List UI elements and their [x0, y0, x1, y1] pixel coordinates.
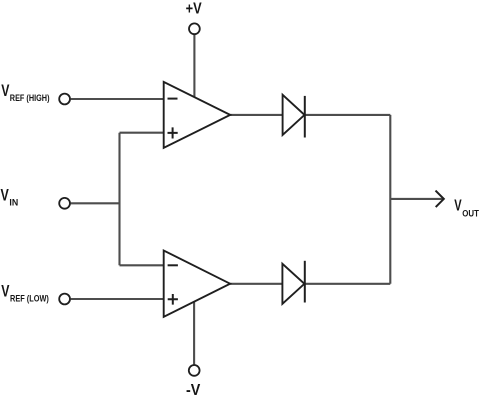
svg-text:V: V	[454, 198, 462, 215]
svg-text:+V: +V	[186, 1, 202, 18]
svg-text:REF (LOW): REF (LOW)	[10, 293, 49, 304]
svg-text:V: V	[1, 82, 9, 100]
svg-text:REF (HIGH): REF (HIGH)	[10, 93, 50, 104]
svg-text:IN: IN	[9, 198, 18, 208]
svg-text:V: V	[1, 186, 9, 204]
svg-text:OUT: OUT	[462, 209, 479, 219]
svg-text:V: V	[1, 282, 9, 300]
svg-text:-V: -V	[186, 382, 201, 399]
